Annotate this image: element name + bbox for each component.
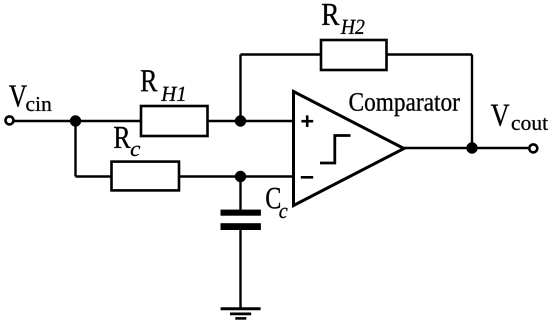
node C junction — [235, 171, 246, 182]
wire node B up to feedback — [239, 55, 241, 122]
wire node A down — [74, 121, 76, 177]
input terminal — [6, 116, 14, 124]
resistor R_H2 — [321, 40, 387, 70]
label V_cin cin — [26, 97, 51, 111]
wire capacitor to ground — [239, 228, 241, 309]
ground — [221, 309, 261, 319]
wire R_c to node C — [179, 175, 241, 177]
wire feedback to R_H2 — [241, 53, 322, 55]
wire node C to comparator minus input — [241, 175, 294, 177]
label R_H2 H2 — [341, 20, 365, 34]
label R_c R — [114, 127, 131, 148]
pin minus — [301, 176, 313, 179]
node D output junction — [466, 142, 477, 153]
label V_cout V — [491, 105, 509, 127]
label R_c c — [131, 146, 140, 156]
pin plus — [301, 115, 313, 127]
wire node A to R_H1 — [76, 120, 142, 122]
wire comparator output to terminal — [404, 147, 530, 149]
wire R_H2 to corner — [387, 53, 473, 55]
capacitor C_c top plate — [221, 210, 261, 216]
label C_c c — [279, 208, 287, 218]
label V_cout cout — [512, 118, 548, 130]
label V_cin V — [9, 86, 27, 108]
wire node C down to capacitor — [239, 177, 241, 212]
node B junction — [235, 115, 246, 126]
capacitor C_c bottom plate — [221, 223, 261, 230]
label C_c C — [266, 188, 280, 209]
resistor R_c — [112, 162, 180, 191]
wire to R_c — [76, 175, 112, 177]
resistor R_H1 — [141, 106, 208, 136]
wire input terminal to node A — [14, 120, 76, 122]
hysteresis step symbol — [320, 136, 351, 164]
label R_H2 R — [322, 4, 340, 25]
label R_H1 H1 — [161, 87, 185, 101]
wire node B to comparator plus input — [241, 120, 294, 122]
op-amp U1 comparator triangle — [294, 92, 405, 206]
label R_H1 R — [141, 70, 158, 91]
wire R_H1 to node B — [208, 120, 241, 122]
wire corner down to output node — [471, 55, 473, 149]
output terminal — [529, 144, 537, 152]
node A junction — [70, 115, 81, 126]
label Comparator — [350, 93, 460, 116]
